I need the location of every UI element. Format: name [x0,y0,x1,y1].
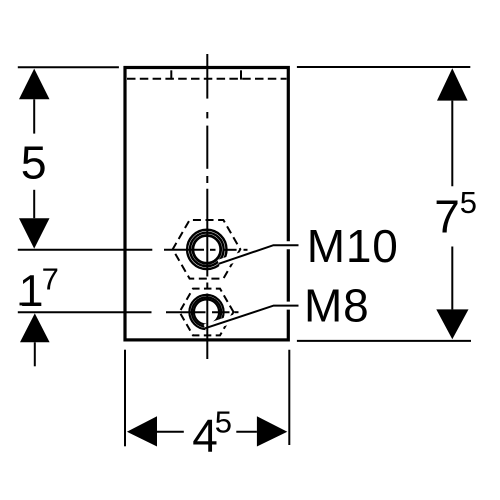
dim 45 arrow left [127,416,157,446]
label 1 foot bar [20,303,41,306]
vertical centerline [206,54,208,359]
svg-text:M10: M10 [307,220,399,272]
svg-text:5: 5 [460,185,477,220]
extension line top right [297,66,470,68]
dim 75 stems [451,101,453,187]
svg-text:7: 7 [434,191,460,243]
dim 5 arrow down [19,218,50,248]
part outline [125,68,288,340]
svg-text:5: 5 [21,137,47,189]
dim 17 arrow up [20,313,50,342]
dim 75 arrow down [436,309,468,339]
dim 45 arrow right [257,416,287,446]
tick left [170,70,172,79]
svg-text:7: 7 [42,262,59,297]
extension line bottom-dim right [288,350,290,445]
thread depth dashed line [127,78,287,80]
extension line top left [18,66,119,68]
leader M10 [219,245,299,264]
dim 17 stem [34,342,36,366]
hex nut M10 [173,220,241,279]
svg-text:5: 5 [215,404,232,439]
extension line M10 axis left [18,249,153,251]
M10 horizontal centerline dashes [164,249,248,251]
M10 1 foot bar [350,258,363,261]
dim 5 arrow up [19,69,50,100]
dim 45 stems [157,431,184,433]
M8 horizontal centerline dashes [166,311,239,313]
leader M8 [205,306,299,329]
dim 75 arrow up [437,68,468,100]
tick right [240,70,242,79]
extension line M8 axis left [18,311,152,313]
leader M10 casing [219,245,299,264]
dim 5 stems [33,99,35,133]
svg-text:1: 1 [19,267,44,316]
svg-text:M8: M8 [304,280,370,332]
leader M8 casing [205,306,299,329]
extension line bottom right [297,340,471,342]
hex nut M8 [180,289,234,336]
extension line bottom-dim left [124,350,126,447]
